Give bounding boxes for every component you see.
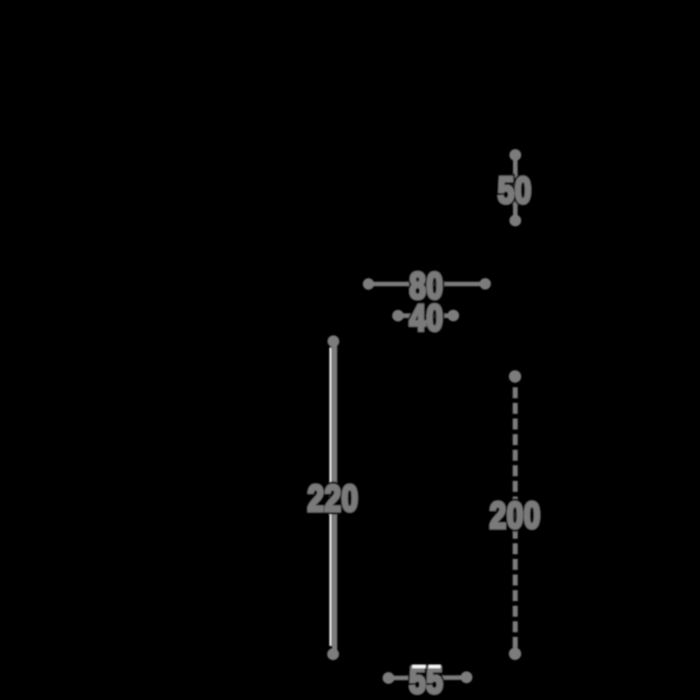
- svg-text:200: 200: [490, 495, 541, 537]
- dimension 55: right dot: [461, 671, 473, 683]
- svg-text:40: 40: [409, 297, 443, 339]
- dimension 50: vertical line: [513, 155, 518, 221]
- svg-text:50: 50: [498, 170, 532, 212]
- dimension 55: white top bar right digit: [429, 665, 441, 668]
- dimension 200: bottom dot: [509, 648, 521, 660]
- dimension 40: horizontal line: [398, 313, 453, 318]
- dimension 50: bottom dot: [509, 215, 521, 227]
- dimension 55: left dot: [383, 672, 395, 684]
- dimension 50: top dot: [509, 149, 521, 161]
- dimension 40: left dot: [392, 310, 404, 322]
- dimension 55: white top bar left digit: [412, 665, 426, 668]
- dimension 55: horizontal line: [389, 675, 467, 680]
- dimension 220: gray vertical line: [332, 342, 337, 654]
- dimension 220: top dot: [328, 335, 340, 347]
- svg-text:220: 220: [307, 478, 358, 520]
- dimension 220: white edge line: [329, 348, 331, 647]
- dimension 220: bottom dot: [327, 648, 339, 660]
- dimension 200: dashed vertical line: [513, 387, 518, 650]
- dimension 80: horizontal line: [369, 282, 486, 287]
- dimension 80: right dot: [480, 278, 491, 289]
- dimension 80: left dot: [363, 278, 374, 289]
- dimension 200: top dot: [509, 370, 521, 382]
- dimension 40: right dot: [448, 310, 460, 322]
